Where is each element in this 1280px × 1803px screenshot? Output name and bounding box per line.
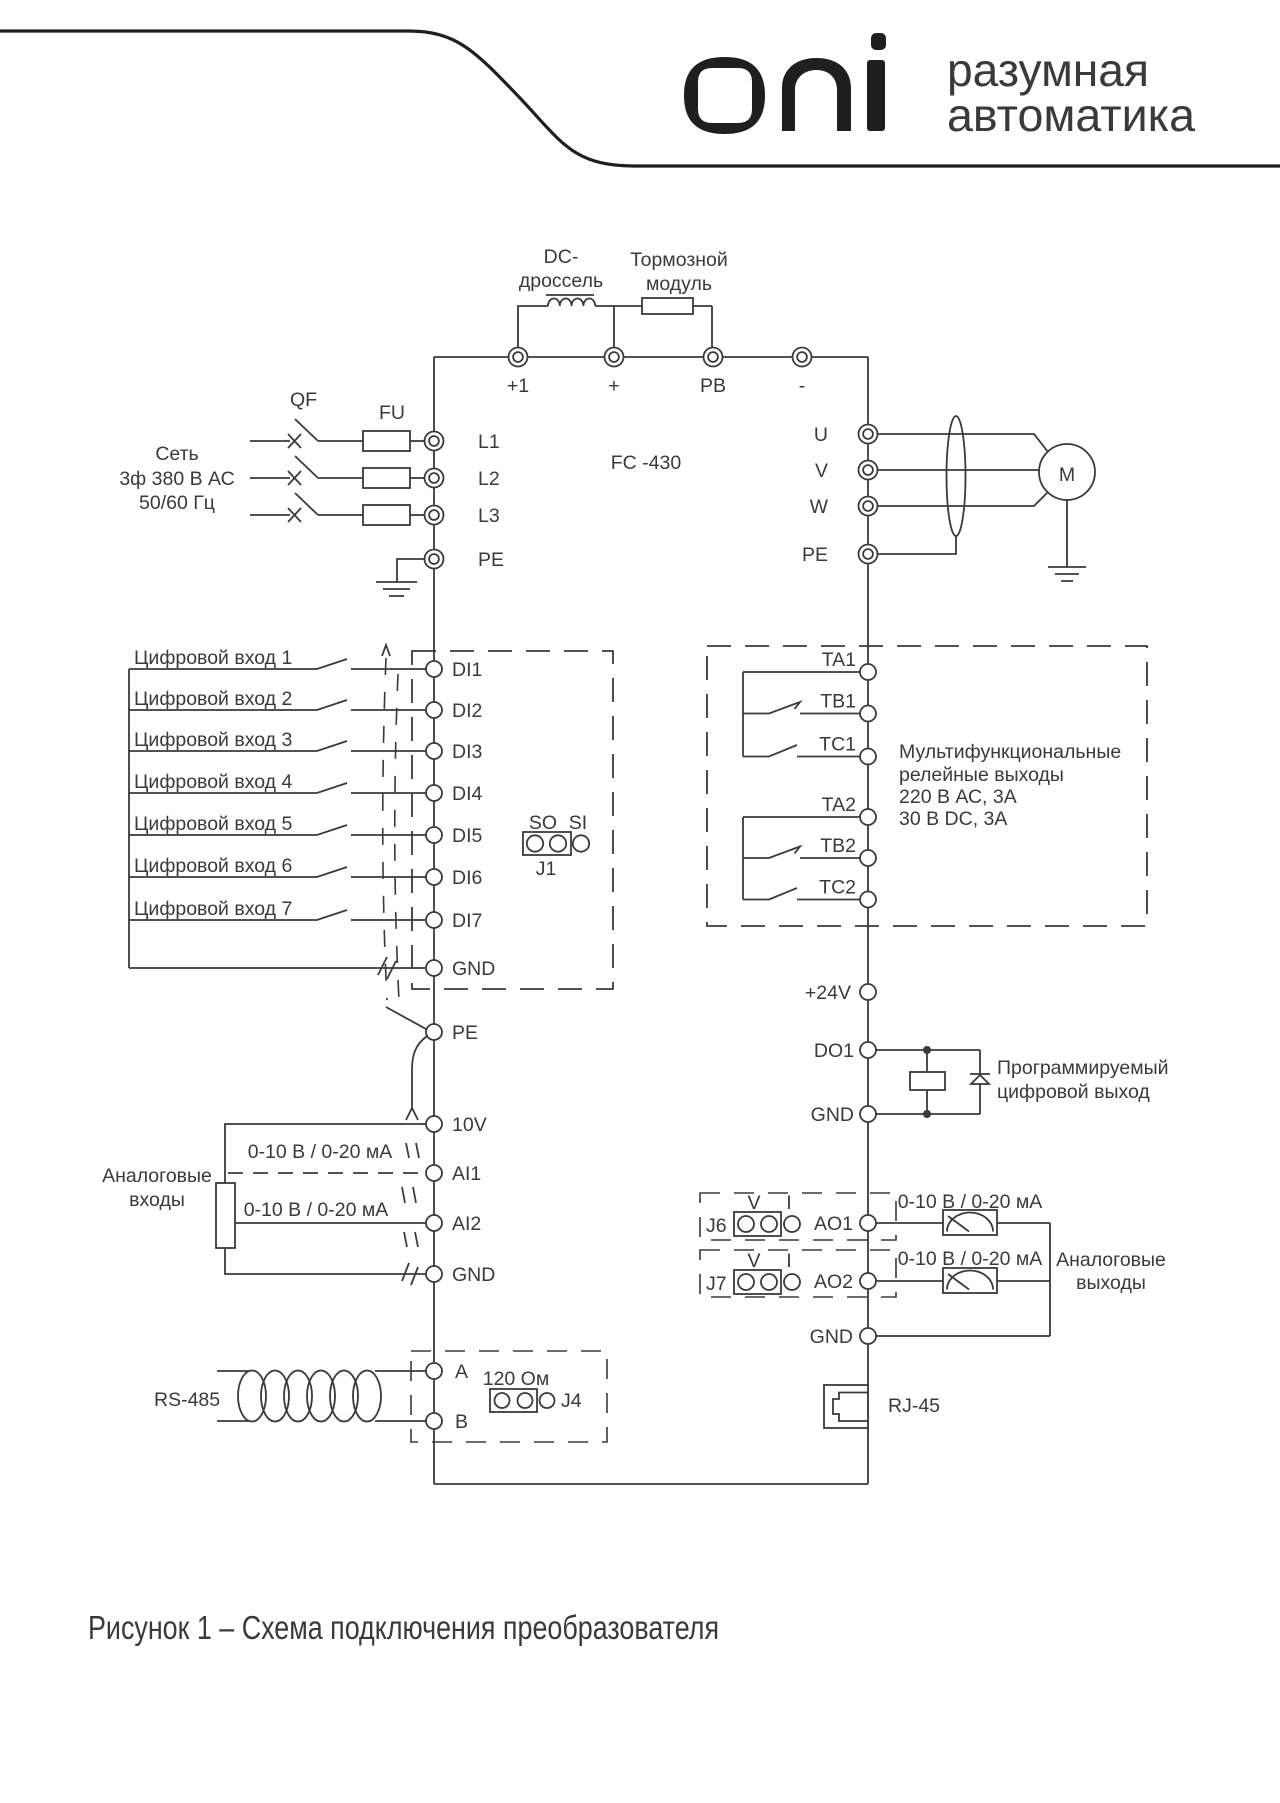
svg-text:W: W [810, 496, 829, 518]
digital inputs dashed box [412, 651, 613, 989]
svg-text:L3: L3 [478, 505, 500, 527]
svg-text:DI6: DI6 [452, 867, 482, 889]
svg-text:выходы: выходы [1076, 1272, 1146, 1294]
wire DI3 [351, 750, 426, 752]
relay 1 common bus [742, 672, 744, 757]
wire DO1 [876, 1049, 980, 1051]
shield drain wires [386, 1007, 426, 1029]
meter AO1 [943, 1210, 997, 1235]
terminal DI1 [426, 661, 442, 677]
terminal DI5 [426, 827, 442, 843]
svg-text:Цифровой вход 3: Цифровой вход 3 [134, 729, 292, 751]
logo oni [684, 33, 886, 134]
wire GND AO [876, 1335, 1050, 1337]
RJ-45 connector [824, 1385, 868, 1428]
svg-text:B: B [455, 1411, 468, 1433]
svg-text:Цифровой вход 1: Цифровой вход 1 [134, 647, 292, 669]
shield break marks GND [378, 957, 396, 979]
wire brake module to PB [693, 306, 712, 348]
svg-text:30 В DC, 3А: 30 В DC, 3А [899, 808, 1007, 830]
svg-text:10V: 10V [452, 1114, 487, 1136]
svg-text:L1: L1 [478, 431, 500, 453]
terminal DI4 [426, 785, 442, 801]
svg-text:AI2: AI2 [452, 1213, 481, 1235]
contact TC2 [743, 888, 860, 900]
svg-text:GND: GND [452, 1264, 495, 1286]
breaker QF pole L3 [288, 508, 301, 522]
wire DI2 [351, 709, 426, 711]
svg-text:FU: FU [379, 402, 405, 424]
terminal GND AO [860, 1328, 876, 1344]
wire AO1 [876, 1222, 943, 1224]
svg-text:0-10 В / 0-20 мА: 0-10 В / 0-20 мА [244, 1199, 389, 1221]
jumper J7 dashed box [700, 1250, 896, 1297]
inverter box FC-430 [434, 357, 868, 1484]
terminal +24V [860, 984, 876, 1000]
wire GND digital [129, 967, 426, 969]
svg-text:+24V: +24V [805, 982, 851, 1004]
svg-text:-: - [799, 375, 806, 397]
svg-text:GND: GND [810, 1326, 853, 1348]
wire +1 stub [518, 306, 548, 348]
ground input PE [376, 559, 424, 596]
junction dots [923, 1046, 931, 1054]
wire choke to + [595, 306, 642, 348]
svg-text:PE: PE [802, 544, 828, 566]
wire GND analog [225, 1248, 426, 1274]
wire PE to screen [878, 536, 957, 554]
wire DI6 [351, 876, 426, 878]
contact TA1 wire [743, 671, 860, 673]
svg-text:TB2: TB2 [820, 835, 856, 857]
shield break marks analog GND [402, 1263, 418, 1285]
svg-text:AO2: AO2 [814, 1271, 853, 1293]
svg-text:Сеть: Сеть [155, 443, 198, 465]
fuse FU L3 [363, 505, 410, 525]
ground motor [1048, 500, 1086, 581]
relay 2 common bus [742, 817, 744, 900]
terminal GND analog [426, 1266, 442, 1282]
terminal + [605, 348, 624, 367]
terminal PE output [859, 545, 878, 564]
svg-text:J6: J6 [706, 1215, 727, 1237]
svg-text:M: M [1059, 464, 1075, 486]
terminal DI7 [426, 912, 442, 928]
svg-text:SI: SI [569, 812, 587, 834]
terminal AO2 [860, 1273, 876, 1289]
meter AO2 [943, 1268, 997, 1293]
svg-text:Цифровой вход 4: Цифровой вход 4 [134, 771, 292, 793]
terminal GND digital [426, 960, 442, 976]
brake module resistor [642, 298, 693, 314]
wire DI5 [351, 834, 426, 836]
svg-text:Аналоговые: Аналоговые [102, 1165, 212, 1187]
svg-text:DC-: DC- [544, 246, 579, 268]
svg-text:J4: J4 [561, 1390, 582, 1412]
wire AO2 [876, 1280, 943, 1282]
relay outputs dashed box [707, 646, 1147, 926]
cable screen ellipse [947, 416, 966, 536]
terminal TA1 [860, 664, 876, 680]
wire mains L1 [250, 440, 290, 442]
svg-text:DI1: DI1 [452, 659, 482, 681]
terminal L3 [425, 506, 444, 525]
terminal TC2 [860, 892, 876, 908]
svg-text:RJ-45: RJ-45 [888, 1395, 940, 1417]
wire W [878, 492, 1049, 506]
svg-text:DI3: DI3 [452, 741, 482, 763]
svg-text:цифровой выход: цифровой выход [997, 1081, 1150, 1103]
svg-text:TC2: TC2 [819, 877, 856, 899]
svg-text:автоматика: автоматика [947, 89, 1195, 141]
svg-text:J1: J1 [536, 858, 557, 880]
contact TB2 [743, 847, 860, 859]
wire DI7 [351, 919, 426, 921]
svg-text:3ф 380 В АС: 3ф 380 В АС [119, 468, 234, 490]
motor M [1039, 444, 1095, 500]
flyback diode [979, 1050, 981, 1114]
svg-text:0-10 В / 0-20 мА: 0-10 В / 0-20 мА [898, 1248, 1043, 1270]
svg-text:AI1: AI1 [452, 1163, 481, 1185]
terminal W [859, 497, 878, 516]
svg-text:Мультифункциональные: Мультифункциональные [899, 741, 1121, 763]
terminal AI1 [426, 1165, 442, 1181]
svg-text:DI4: DI4 [452, 783, 483, 805]
svg-text:RS-485: RS-485 [154, 1389, 220, 1411]
svg-text:AO1: AO1 [814, 1213, 853, 1235]
svg-text:L2: L2 [478, 468, 500, 490]
terminal TB2 [860, 850, 876, 866]
svg-text:TA2: TA2 [822, 794, 856, 816]
svg-text:DI5: DI5 [452, 825, 483, 847]
svg-text:V: V [747, 1192, 760, 1214]
svg-text:DI7: DI7 [452, 910, 482, 932]
contact TC1 [743, 745, 860, 757]
svg-text:Цифровой вход 2: Цифровой вход 2 [134, 688, 292, 710]
wire mains L3 [250, 514, 290, 516]
analog shield dashes [402, 1143, 419, 1247]
header curve [0, 31, 1280, 166]
terminal B [426, 1413, 442, 1429]
svg-text:+: + [608, 375, 619, 397]
terminal TA2 [860, 809, 876, 825]
terminal GND 24V [860, 1106, 876, 1122]
terminal AI2 [426, 1215, 442, 1231]
terminal DI6 [426, 869, 442, 885]
svg-text:120 Ом: 120 Ом [483, 1368, 550, 1390]
svg-text:Цифровой вход 6: Цифровой вход 6 [134, 855, 292, 877]
terminal L2 [425, 469, 444, 488]
svg-text:DO1: DO1 [814, 1040, 854, 1062]
terminal A [426, 1363, 442, 1379]
fuse FU L1 [363, 431, 410, 451]
breaker QF pole L1 [288, 434, 301, 448]
twisted pair [217, 1371, 248, 1421]
terminal TB1 [860, 706, 876, 722]
RS-485 dashed box [411, 1351, 607, 1442]
jumper J6 dashed box [700, 1193, 896, 1240]
terminal PB [704, 348, 723, 367]
svg-text:PE: PE [452, 1022, 478, 1044]
terminal L1 [425, 432, 444, 451]
wire DI4 [351, 792, 426, 794]
contact TB1 [743, 702, 860, 714]
digital cable shield dashes [383, 658, 387, 1000]
svg-text:0-10 В / 0-20 мА: 0-10 В / 0-20 мА [248, 1141, 393, 1163]
wire AO bus [1049, 1223, 1051, 1336]
svg-text:релейные выходы: релейные выходы [899, 764, 1064, 786]
terminal PE input [425, 550, 444, 569]
svg-text:V: V [747, 1250, 760, 1272]
svg-text:модуль: модуль [646, 273, 712, 295]
wire V [878, 469, 1040, 471]
breaker QF pole L2 [288, 471, 301, 485]
svg-text:TA1: TA1 [822, 649, 856, 671]
svg-text:Программируемый: Программируемый [997, 1057, 1169, 1079]
svg-text:GND: GND [811, 1104, 854, 1126]
svg-text:Аналоговые: Аналоговые [1056, 1249, 1166, 1271]
svg-text:PE: PE [478, 549, 504, 571]
terminal PE control [426, 1024, 442, 1040]
DC choke inductor [548, 298, 595, 306]
svg-text:Цифровой вход 7: Цифровой вход 7 [134, 898, 292, 920]
svg-text:TC1: TC1 [819, 734, 856, 756]
svg-text:Рисунок 1 – Схема подключения: Рисунок 1 – Схема подключения преобразов… [88, 1609, 719, 1646]
terminal DO1 [860, 1042, 876, 1058]
svg-text:Цифровой вход 5: Цифровой вход 5 [134, 813, 292, 835]
svg-text:I: I [786, 1250, 791, 1272]
svg-text:входы: входы [129, 1189, 185, 1211]
svg-text:220 В АС, 3А: 220 В АС, 3А [899, 786, 1017, 808]
wire AI1 dashed [228, 1172, 426, 1174]
fuse FU L2 [363, 468, 410, 488]
svg-text:Тормозной: Тормозной [630, 249, 728, 271]
potentiometer [216, 1183, 235, 1248]
terminal - [793, 348, 812, 367]
svg-text:+1: +1 [507, 375, 529, 397]
wire 10V [225, 1124, 426, 1183]
terminal DI3 [426, 743, 442, 759]
wire DI1 [351, 668, 426, 670]
svg-text:J7: J7 [706, 1273, 727, 1295]
terminal +1 [509, 348, 528, 367]
svg-text:I: I [786, 1192, 791, 1214]
terminal DI2 [426, 702, 442, 718]
wire mains L2 [250, 477, 290, 479]
digital input common bus [128, 669, 130, 968]
terminal V [859, 461, 878, 480]
wire U [878, 434, 1049, 452]
contact TA2 wire [743, 816, 860, 818]
svg-text:FC -430: FC -430 [611, 452, 682, 474]
terminal U [859, 425, 878, 444]
wire GND 24V [876, 1113, 980, 1115]
relay coil [926, 1050, 928, 1114]
terminal TC1 [860, 749, 876, 765]
svg-text:V: V [815, 460, 828, 482]
svg-text:DI2: DI2 [452, 700, 482, 722]
svg-text:дроссель: дроссель [519, 270, 603, 292]
svg-text:TB1: TB1 [820, 691, 856, 713]
wire AI2 [235, 1222, 426, 1224]
svg-text:QF: QF [290, 389, 317, 411]
svg-text:0-10 В / 0-20 мА: 0-10 В / 0-20 мА [898, 1191, 1043, 1213]
terminal 10V [426, 1116, 442, 1132]
svg-text:A: A [455, 1361, 468, 1383]
svg-text:GND: GND [452, 958, 495, 980]
svg-text:U: U [814, 424, 828, 446]
terminal AO1 [860, 1215, 876, 1231]
svg-text:PB: PB [700, 375, 726, 397]
svg-text:SO: SO [529, 812, 557, 834]
svg-text:50/60 Гц: 50/60 Гц [139, 492, 215, 514]
